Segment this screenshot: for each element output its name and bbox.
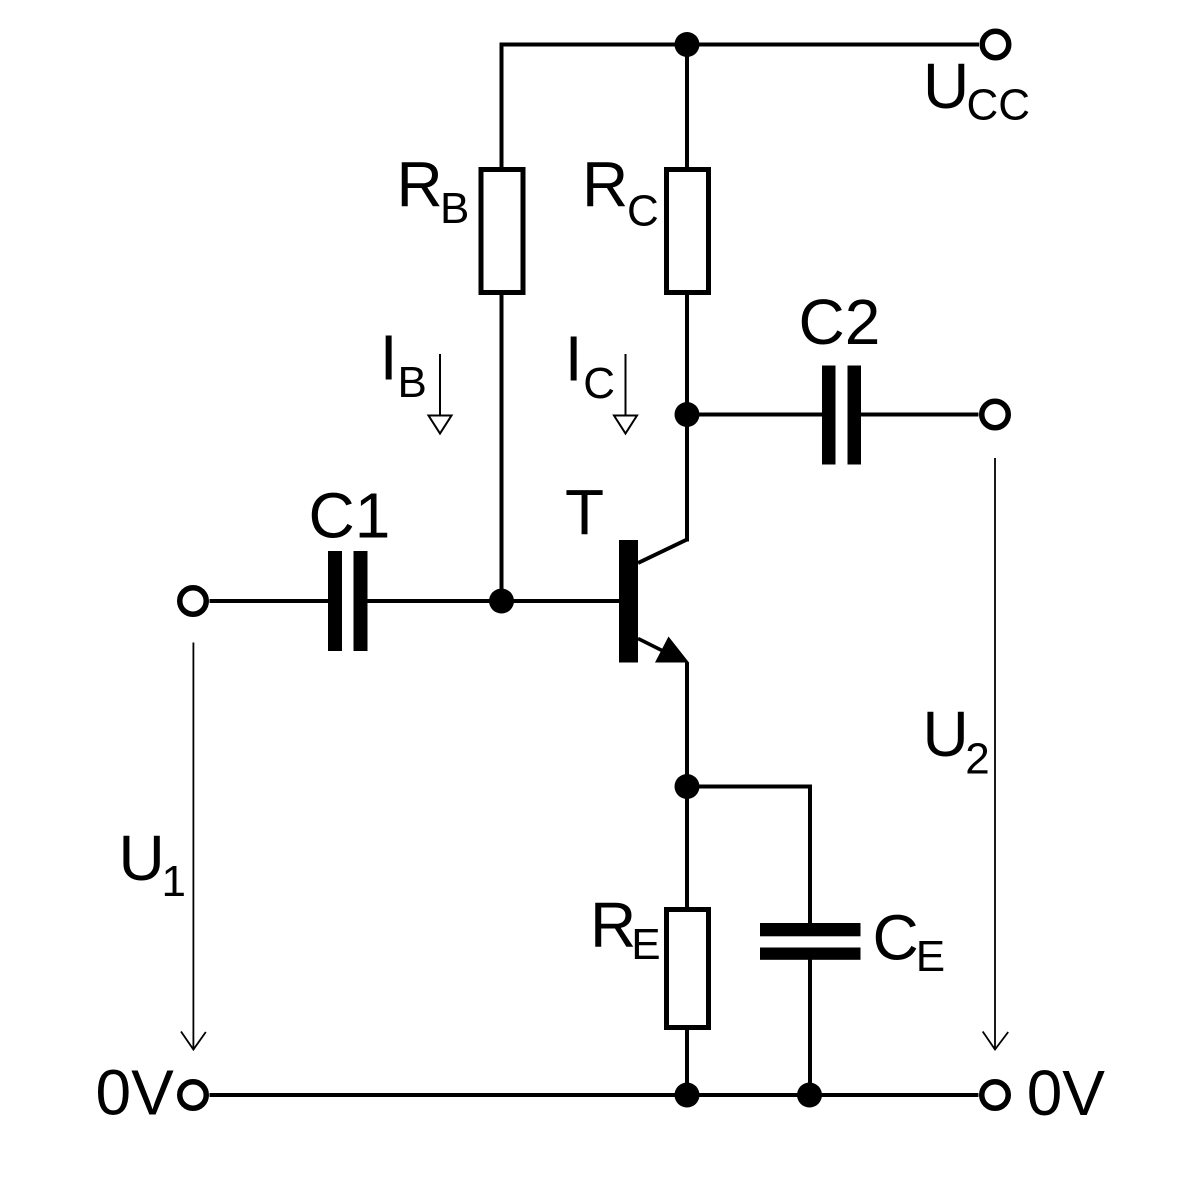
terminal 0V right	[982, 1082, 1009, 1109]
svg-text:B: B	[398, 358, 427, 407]
svg-text:U: U	[923, 698, 969, 770]
svg-text:E: E	[631, 920, 660, 969]
svg-text:R: R	[397, 149, 443, 221]
svg-text:U: U	[923, 50, 969, 122]
wire: 0V bottom rail	[210, 1093, 979, 1097]
wire: C1 to base	[368, 599, 620, 603]
terminal output	[982, 401, 1009, 428]
label RB	[397, 149, 470, 234]
junction: CE / bottom rail	[797, 1083, 822, 1108]
terminal 0V left	[180, 1082, 207, 1109]
voltage arrow U1	[181, 643, 206, 1050]
svg-text:CC: CC	[967, 81, 1031, 130]
junction: RE / bottom rail	[675, 1083, 700, 1108]
label U2	[923, 698, 990, 784]
svg-text:C1: C1	[309, 480, 391, 552]
label CE	[873, 902, 946, 981]
label RE	[590, 889, 661, 969]
wire: RC top lead	[685, 45, 689, 168]
svg-text:C2: C2	[799, 286, 881, 358]
svg-text:E: E	[916, 932, 945, 981]
svg-text:2: 2	[965, 735, 989, 784]
resistor RB	[481, 170, 523, 293]
wire: collector node to C2	[687, 413, 822, 417]
wire: emitter node to CE branch	[687, 787, 810, 924]
svg-text:I: I	[565, 323, 583, 395]
svg-text:T: T	[565, 476, 604, 548]
junction: emitter node	[675, 774, 700, 799]
svg-text:C: C	[583, 359, 615, 408]
svg-text:B: B	[440, 184, 469, 233]
wire: RE bottom lead	[685, 1030, 689, 1095]
wire: RB bottom lead	[500, 295, 504, 601]
resistor RC	[667, 170, 709, 293]
wire: input to C1	[210, 599, 329, 603]
wire: +Ucc top rail	[500, 43, 980, 47]
svg-text:C: C	[873, 902, 919, 974]
label RC	[582, 149, 659, 236]
label U1	[119, 822, 186, 906]
svg-text:0V: 0V	[96, 1057, 175, 1129]
capacitor C1	[328, 551, 368, 651]
svg-text:1: 1	[162, 857, 186, 906]
capacitor C2	[822, 366, 861, 465]
svg-text:0V: 0V	[1027, 1057, 1106, 1129]
terminal Ucc	[982, 31, 1009, 58]
resistor RE	[667, 910, 709, 1028]
capacitor CE	[760, 923, 861, 960]
wire: collector lead	[685, 415, 689, 542]
svg-text:C: C	[627, 187, 659, 236]
current arrow IC	[614, 354, 637, 434]
wire: CE bottom lead	[808, 960, 812, 1096]
wire: RE top lead	[685, 787, 689, 908]
transistor T	[619, 540, 689, 663]
label IB	[380, 322, 427, 408]
terminal input	[180, 588, 207, 615]
wire: C2 to output terminal	[861, 413, 979, 417]
label IC	[565, 323, 615, 409]
wire: RB top lead	[500, 45, 504, 168]
svg-text:U: U	[119, 822, 165, 894]
wire: emitter lead	[685, 663, 689, 787]
junction: collector node	[675, 402, 700, 427]
junction: top rail / RC node	[675, 32, 700, 57]
voltage arrow U2	[983, 458, 1009, 1050]
svg-text:R: R	[590, 889, 636, 961]
label Ucc	[923, 50, 1030, 130]
junction: base node	[489, 589, 514, 614]
wire: RC bottom lead	[685, 295, 689, 415]
svg-text:I: I	[380, 322, 398, 394]
current arrow IB	[429, 354, 452, 434]
svg-text:R: R	[582, 149, 628, 221]
